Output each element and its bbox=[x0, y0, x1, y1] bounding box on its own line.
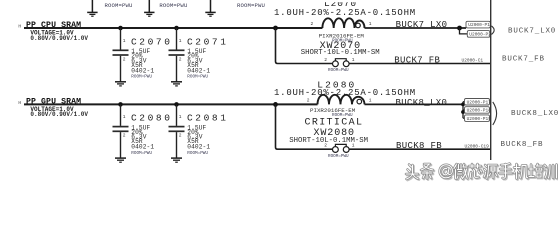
svg-text:H: H bbox=[18, 24, 21, 29]
schematic border bbox=[490, 0, 492, 160]
svg-text:U2000-P18: U2000-P18 bbox=[467, 108, 492, 114]
wire BUCK7_FB bbox=[349, 63, 490, 65]
svg-text:2: 2 bbox=[123, 56, 126, 62]
svg-text:1: 1 bbox=[179, 114, 182, 120]
svg-text:C2081: C2081 bbox=[187, 113, 229, 124]
svg-text:C2070: C2070 bbox=[131, 36, 173, 47]
svg-text:2: 2 bbox=[179, 56, 182, 62]
wire PP_CPU_SRAM main rail bbox=[24, 27, 322, 29]
inductor L2070 bbox=[274, 0, 416, 43]
svg-text:1: 1 bbox=[123, 38, 126, 44]
svg-text:1: 1 bbox=[369, 21, 372, 27]
off-page bracket BUCK8_LX0 bbox=[493, 102, 497, 125]
pin ref U2000-P1 bbox=[466, 21, 490, 28]
net property VOLTAGE=1.0V (CPU) bbox=[30, 30, 88, 42]
ground GND1 top bbox=[87, 0, 97, 16]
svg-text:BUCK7_LX0: BUCK7_LX0 bbox=[396, 20, 448, 30]
junction FB tap (bottom) bbox=[273, 102, 278, 107]
wire BUCK8 FB tap vertical bbox=[276, 104, 333, 149]
svg-text:BUCK8_LX0: BUCK8_LX0 bbox=[396, 98, 448, 108]
ground for C2081 bbox=[171, 158, 182, 162]
svg-text:1: 1 bbox=[179, 38, 182, 44]
junction FB tap (top) bbox=[273, 26, 278, 31]
watermark outline pass bbox=[406, 164, 557, 180]
svg-text:SHORT-10L-0.1MM-SM: SHORT-10L-0.1MM-SM bbox=[289, 137, 368, 145]
svg-text:U2000-C1: U2000-C1 bbox=[462, 58, 484, 64]
wire BUCK8_LX0 bbox=[365, 103, 464, 105]
svg-text:U2000-P2: U2000-P2 bbox=[469, 32, 491, 38]
ground for C2070 bbox=[115, 82, 126, 86]
off-page bracket BUCK7_LX0 bbox=[492, 26, 495, 35]
svg-text:ROOM=PWU: ROOM=PWU bbox=[328, 68, 349, 73]
capacitor C2070 bbox=[113, 28, 173, 82]
power port PP_GPU_SRAM bbox=[18, 97, 81, 106]
svg-text:BUCK7_FB: BUCK7_FB bbox=[502, 56, 545, 64]
svg-text:U2000-C19: U2000-C19 bbox=[465, 144, 490, 150]
svg-text:BUCK7_FB: BUCK7_FB bbox=[394, 55, 440, 65]
svg-text:0.80V/0.90V/1.0V: 0.80V/0.90V/1.0V bbox=[30, 35, 88, 42]
svg-text:1.0UH-20%-2.25A-0.15OHM: 1.0UH-20%-2.25A-0.15OHM bbox=[274, 88, 416, 98]
junction at C2070 bbox=[118, 26, 123, 31]
svg-text:0.80V/0.90V/1.0V: 0.80V/0.90V/1.0V bbox=[30, 111, 88, 118]
svg-text:ROOM=PWU: ROOM=PWU bbox=[131, 75, 152, 80]
svg-text:SHORT-10L-0.1MM-SM: SHORT-10L-0.1MM-SM bbox=[301, 49, 380, 57]
svg-text:1: 1 bbox=[352, 57, 355, 63]
wire BUCK7 FB tap vertical bbox=[276, 28, 333, 64]
junction BUCK7_LX0 bbox=[457, 26, 462, 31]
inductor L2080 bbox=[274, 80, 416, 118]
power port PP_CPU_SRAM bbox=[18, 21, 81, 30]
svg-text:ROOM=PWU: ROOM=PWU bbox=[187, 75, 208, 80]
net property VOLTAGE=1.0V (GPU) bbox=[30, 106, 88, 118]
svg-text:U2000-P19: U2000-P19 bbox=[467, 116, 492, 122]
junction at C2071 bbox=[174, 26, 179, 31]
capacitor C2080 bbox=[113, 104, 173, 158]
ground for C2080 bbox=[115, 158, 126, 162]
wire PP_GPU_SRAM main rail bbox=[24, 103, 318, 105]
svg-text:1: 1 bbox=[123, 114, 126, 120]
svg-text:0402-1: 0402-1 bbox=[131, 67, 154, 74]
svg-text:0402-1: 0402-1 bbox=[187, 67, 210, 74]
svg-text:1.0UH-20%-2.25A-0.15OHM: 1.0UH-20%-2.25A-0.15OHM bbox=[274, 8, 416, 18]
svg-text:2: 2 bbox=[179, 133, 182, 139]
svg-text:1: 1 bbox=[352, 143, 355, 149]
junction BUCK8_LX0 b bbox=[461, 110, 465, 114]
watermark shadow pass bbox=[407, 165, 557, 181]
svg-text:BUCK7_LX0: BUCK7_LX0 bbox=[508, 27, 556, 35]
capacitor C2071 bbox=[169, 28, 229, 82]
pin stub BUCK8_LX0 bbox=[462, 102, 464, 119]
junction at C2081 bbox=[174, 102, 179, 107]
svg-text:2: 2 bbox=[324, 57, 327, 63]
jumper XW2080 bbox=[289, 128, 368, 159]
watermark core pass bbox=[406, 164, 557, 180]
svg-text:0402-1: 0402-1 bbox=[187, 144, 210, 151]
svg-text:C2080: C2080 bbox=[131, 113, 173, 124]
junction at C2080 bbox=[118, 102, 123, 107]
svg-text:ROOM=PWU: ROOM=PWU bbox=[328, 154, 349, 159]
wire BUCK7_LX0 bbox=[365, 27, 467, 29]
ground GND3 top bbox=[205, 0, 215, 16]
wire BUCK8_FB bbox=[349, 148, 490, 150]
svg-text:2: 2 bbox=[307, 98, 310, 104]
svg-text:H: H bbox=[18, 101, 21, 106]
pin ref U2000-P2 bbox=[460, 28, 492, 38]
svg-text:2: 2 bbox=[123, 133, 126, 139]
junction BUCK8_LX0 a bbox=[461, 103, 465, 107]
pin ref U2000-P18 bbox=[463, 107, 491, 114]
svg-text:0402-1: 0402-1 bbox=[131, 144, 154, 151]
ground GND2 top bbox=[144, 0, 154, 16]
ground for C2071 bbox=[171, 82, 182, 86]
jumper XW2070 bbox=[301, 41, 380, 73]
svg-text:1: 1 bbox=[369, 98, 372, 104]
svg-text:BUCK8_LX0: BUCK8_LX0 bbox=[511, 110, 558, 118]
svg-text:ROOM=PWU: ROOM=PWU bbox=[159, 2, 187, 9]
svg-text:2: 2 bbox=[324, 143, 327, 149]
svg-text:2: 2 bbox=[311, 21, 314, 27]
svg-text:ROOM=PWU: ROOM=PWU bbox=[237, 2, 265, 9]
svg-text:U2000-P1: U2000-P1 bbox=[468, 22, 490, 28]
svg-text:BUCK8_FB: BUCK8_FB bbox=[501, 141, 544, 149]
capacitor C2081 bbox=[169, 104, 229, 158]
svg-text:U2000-P17: U2000-P17 bbox=[467, 99, 492, 105]
svg-text:CRITICAL: CRITICAL bbox=[305, 118, 364, 129]
svg-text:ROOM=PWU: ROOM=PWU bbox=[131, 151, 152, 156]
svg-text:ROOM=PWU: ROOM=PWU bbox=[187, 151, 208, 156]
svg-text:ROOM=PWU: ROOM=PWU bbox=[105, 2, 133, 9]
svg-text:BUCK8_FB: BUCK8_FB bbox=[396, 141, 442, 151]
svg-text:C2071: C2071 bbox=[187, 36, 229, 47]
pin ref U2000-P19 bbox=[463, 115, 491, 122]
watermark 头条@微芯源手机培训 bbox=[406, 164, 558, 181]
pin ref U2000-P17 bbox=[463, 99, 491, 106]
